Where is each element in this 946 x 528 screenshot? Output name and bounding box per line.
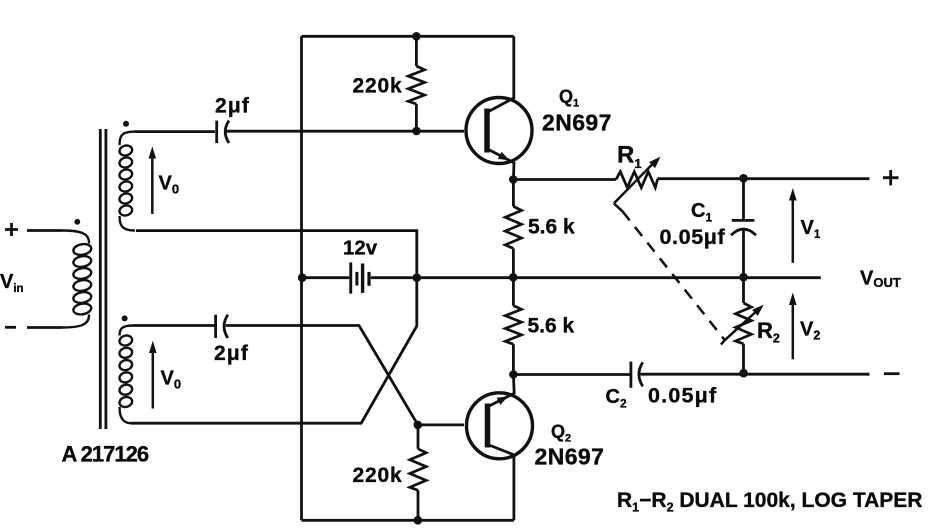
wire W3: 2uf bottom to Q2 base (cross right-down) bbox=[226, 326, 418, 425]
transformer secondary winding (top) bbox=[118, 132, 135, 231]
svg-text:2μf: 2μf bbox=[215, 95, 250, 118]
capacitor 2uf top bbox=[215, 121, 218, 144]
node: 220k bottom / rail bbox=[414, 516, 423, 525]
wire W1: secondary-top lower end to battery node bbox=[136, 231, 417, 278]
V1 arrow bbox=[792, 199, 795, 263]
svg-text:0.05μf: 0.05μf bbox=[660, 225, 726, 249]
svg-text:0.05μf: 0.05μf bbox=[648, 384, 717, 408]
capacitor C1 bbox=[742, 178, 745, 220]
capacitor 2uf bottom bbox=[214, 315, 217, 338]
wire: Q2 base bbox=[418, 423, 464, 426]
phase dot primary bbox=[74, 219, 80, 225]
node: Q1 emitter / output bbox=[509, 175, 518, 184]
transformer secondary winding (bottom) bbox=[118, 326, 133, 424]
node: Q2 emitter / output bbox=[509, 370, 518, 379]
bottom rail bbox=[302, 519, 514, 522]
svg-text:220k: 220k bbox=[353, 464, 403, 487]
svg-text:5.6 k: 5.6 k bbox=[528, 315, 575, 338]
plus terminal left bbox=[5, 223, 18, 236]
node: 5.6k junction bbox=[509, 273, 518, 282]
wire: secondary top to C (2uf) bbox=[135, 130, 215, 133]
phase dot secondary bottom bbox=[122, 315, 128, 321]
wire W2: battery node to lower coil (cross left-down) bbox=[131, 278, 417, 424]
resistor R2 bbox=[742, 277, 745, 303]
capacitor C2 bbox=[630, 362, 633, 388]
svg-text:2N697: 2N697 bbox=[542, 110, 612, 136]
node: left rail / battery bbox=[298, 273, 307, 282]
wire: minus terminal to primary bbox=[27, 326, 62, 329]
svg-text:5.6 k: 5.6 k bbox=[528, 216, 575, 239]
resistor 220k top bbox=[415, 36, 418, 66]
plus terminal right bbox=[883, 170, 899, 185]
transistor Q2 bbox=[467, 393, 533, 459]
minus terminal left bbox=[5, 326, 16, 329]
node: output+ / C1 bbox=[739, 174, 748, 183]
phase dot secondary top bbox=[123, 121, 129, 127]
transistor Q1 bbox=[466, 98, 532, 164]
node: 220k / Q1 base bbox=[412, 127, 421, 136]
node: Q2 base / 220k / diagonal bbox=[414, 421, 423, 430]
wire: Q1 emitter to 5.6k top bbox=[512, 180, 515, 207]
resistor R1 (zigzag) bbox=[616, 172, 658, 188]
node: C1 / R2 / rail bbox=[739, 273, 748, 282]
svg-text:12v: 12v bbox=[343, 237, 378, 260]
svg-text:2μf: 2μf bbox=[214, 342, 249, 365]
svg-text:2N697: 2N697 bbox=[535, 444, 605, 470]
resistor 5.6k top bbox=[505, 206, 521, 248]
gang dashed line R1-R2 bbox=[623, 211, 725, 339]
resistor 220k bottom bbox=[417, 425, 420, 449]
left vertical rail bbox=[300, 36, 303, 520]
R1 wiper arrow bbox=[614, 161, 656, 203]
minus terminal right bbox=[884, 372, 900, 375]
svg-text:A 217126: A 217126 bbox=[62, 442, 149, 467]
V0 arrow top bbox=[151, 155, 154, 214]
output bottom wire bbox=[513, 373, 630, 376]
node: battery / W1 bbox=[413, 273, 422, 282]
transformer primary winding bbox=[62, 231, 92, 328]
wire: 2uf to Q1 base bbox=[226, 130, 464, 133]
R2 wiper arrow bbox=[721, 310, 758, 345]
V0 arrow bottom bbox=[152, 350, 155, 409]
top rail bbox=[302, 35, 514, 38]
middle rail (battery / Vout) bbox=[302, 276, 821, 279]
node: R2 / C2 rail bbox=[739, 369, 748, 378]
svg-text:R1−R2 DUAL 100k, LOG TAPER: R1−R2 DUAL 100k, LOG TAPER bbox=[617, 489, 922, 515]
svg-text:220k: 220k bbox=[353, 75, 403, 98]
resistor 5.6k bottom bbox=[512, 277, 515, 305]
V2 arrow bbox=[792, 303, 795, 359]
transformer T core bbox=[100, 129, 106, 429]
output top wire bbox=[513, 178, 616, 181]
battery 12v bbox=[349, 262, 352, 293]
node: top rail / 220k bbox=[412, 32, 421, 41]
wire: plus terminal to primary bbox=[27, 229, 62, 232]
